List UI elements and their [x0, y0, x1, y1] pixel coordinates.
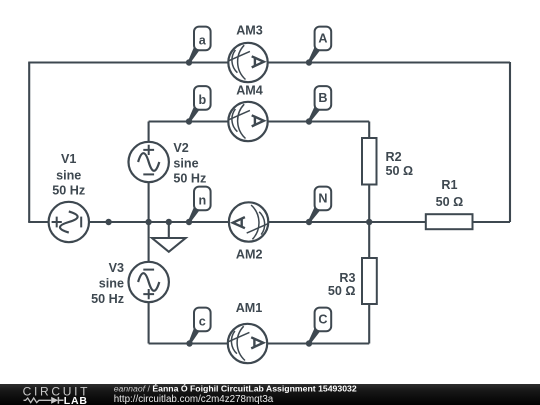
wire left rail [28, 63, 30, 223]
svg-text:R1: R1 [441, 178, 457, 192]
resistor R1 [426, 214, 473, 229]
svg-text:AM3: AM3 [236, 24, 263, 38]
svg-text:50 Ω: 50 Ω [386, 164, 414, 178]
ammeter AM1 [228, 324, 267, 363]
label R2 [386, 150, 414, 178]
junction R2-R3 [366, 219, 372, 225]
svg-text:50 Ω: 50 Ω [328, 284, 356, 298]
ammeter AM2 [229, 202, 268, 241]
svg-text:c: c [199, 315, 206, 329]
node a [186, 27, 211, 66]
svg-text:50 Hz: 50 Hz [173, 172, 206, 186]
svg-text:sine: sine [173, 157, 198, 171]
node b [186, 86, 211, 125]
svg-text:b: b [198, 93, 206, 107]
voltage source V3 [129, 262, 169, 302]
resistor R3 [362, 258, 377, 304]
svg-text:V1: V1 [61, 152, 76, 166]
svg-text:B: B [318, 91, 327, 105]
svg-text:50 Ω: 50 Ω [436, 195, 464, 209]
resistor R2 [362, 138, 377, 185]
svg-text:N: N [318, 192, 327, 206]
label V1 [52, 152, 85, 198]
svg-text:R2: R2 [386, 150, 402, 164]
node c [186, 308, 210, 347]
node n [186, 187, 211, 226]
svg-text:sine: sine [99, 277, 124, 291]
svg-text:n: n [198, 194, 206, 208]
svg-text:eannaof / Éanna Ó Foighil Circ: eannaof / Éanna Ó Foighil CircuitLab Ass… [114, 382, 357, 393]
wire middle rail [28, 221, 510, 223]
junction V1-right [105, 219, 111, 225]
wire rail b-B [149, 120, 370, 122]
junction ground [166, 219, 172, 225]
wire V2 branch [148, 122, 150, 223]
node N [306, 187, 331, 226]
ammeter AM4 [228, 102, 267, 141]
footer bar [0, 384, 540, 405]
svg-text:AM2: AM2 [236, 248, 263, 262]
svg-text:V2: V2 [173, 141, 188, 155]
label R3 [328, 271, 356, 298]
ground [152, 222, 186, 252]
svg-text:A: A [318, 32, 327, 46]
svg-text:http://circuitlab.com/c2m4z278: http://circuitlab.com/c2m4z278mqt3a [114, 394, 274, 405]
wire top rail [28, 61, 510, 63]
voltage source V1 [49, 202, 89, 242]
ammeter AM3 [228, 43, 267, 82]
label V3 [91, 261, 124, 306]
voltage source V2 [129, 142, 169, 182]
wire R2-R3 branch [368, 122, 370, 344]
svg-text:a: a [199, 34, 207, 48]
svg-text:AM4: AM4 [236, 84, 263, 98]
svg-text:sine: sine [56, 169, 81, 183]
label R1 [436, 178, 464, 209]
wire bottom rail [149, 342, 370, 344]
svg-text:AM1: AM1 [236, 301, 263, 315]
svg-text:R3: R3 [339, 271, 355, 285]
node C [306, 308, 331, 347]
logo resistor zigzag [24, 398, 52, 403]
node B [306, 86, 331, 125]
svg-text:LAB: LAB [64, 395, 88, 405]
svg-text:V3: V3 [109, 261, 124, 275]
wire V3 branch [148, 222, 150, 344]
node A [306, 27, 331, 66]
logo diode [51, 397, 58, 404]
svg-text:C: C [318, 313, 327, 327]
svg-text:50 Hz: 50 Hz [91, 292, 124, 306]
svg-text:50 Hz: 50 Hz [52, 184, 85, 198]
junction V2-V3 [145, 219, 151, 225]
wire right rail [509, 62, 511, 222]
label V2 [173, 141, 206, 186]
